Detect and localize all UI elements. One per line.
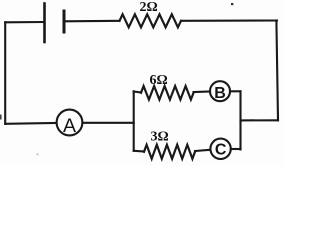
svg-text:6Ω: 6Ω xyxy=(150,73,168,88)
wire battery to resistor R1 xyxy=(64,20,120,23)
svg-text:B: B xyxy=(214,85,226,102)
battery V1 long plate xyxy=(43,4,46,43)
voltmeter C circle xyxy=(210,139,230,159)
voltmeter B circle xyxy=(210,81,230,101)
wire ammeter to node left bus xyxy=(83,122,134,124)
svg-text:A: A xyxy=(63,115,76,137)
speck left edge xyxy=(0,115,2,120)
node right bus vertical xyxy=(239,91,241,149)
wire top-left horizontal xyxy=(5,21,44,23)
wire lead to resistor R3 xyxy=(134,150,144,153)
battery V1 short plate xyxy=(63,11,66,32)
resistor R1 2ohm zigzag xyxy=(120,14,182,27)
node left bus vertical xyxy=(133,91,135,151)
wire lead to resistor R2 xyxy=(134,92,141,93)
wire left vertical xyxy=(4,22,6,124)
resistor R2 6ohm zigzag xyxy=(141,86,194,100)
wire resistor R1 to top-right corner xyxy=(181,19,277,21)
speck top xyxy=(231,3,233,5)
wire resistor R3 to voltmeter C xyxy=(195,150,210,151)
wire output tap to right xyxy=(241,119,279,121)
wire resistor R2 to voltmeter B xyxy=(194,90,211,93)
svg-text:2Ω: 2Ω xyxy=(140,0,158,15)
speck bottom faint xyxy=(37,154,39,156)
svg-text:C: C xyxy=(215,142,227,159)
wire right vertical xyxy=(276,21,278,121)
svg-text:3Ω: 3Ω xyxy=(151,129,169,144)
ammeter A circle xyxy=(57,110,83,136)
wire bottom-left to ammeter xyxy=(5,122,56,125)
wire voltmeter B to right bus xyxy=(230,90,241,92)
wire voltmeter C to right bus xyxy=(231,148,241,150)
resistor R3 3ohm zigzag xyxy=(144,145,195,159)
